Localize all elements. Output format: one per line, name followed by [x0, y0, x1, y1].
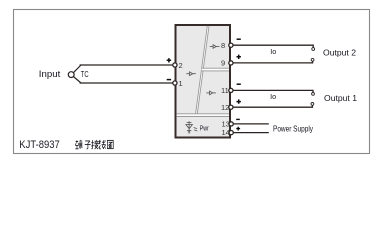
svg-text:TC: TC [81, 70, 89, 79]
svg-text:Io: Io [270, 94, 276, 101]
端 [75, 140, 82, 149]
svg-text:Input: Input [39, 69, 61, 79]
polarity + terminal 12 [237, 99, 241, 103]
title 端子接线图 (drawn glyphs) [75, 140, 113, 149]
terminal 11 [221, 86, 233, 95]
wire input plus [80, 64, 174, 66]
thermocouple TC [68, 65, 88, 83]
wire output 1 plus [233, 105, 312, 107]
terminal 14 [222, 128, 234, 137]
polarity - terminal 11 [237, 83, 241, 85]
terminal 1 [173, 79, 183, 88]
polarity + input [167, 58, 171, 62]
signal arrow output 1 [206, 91, 216, 95]
svg-text:8: 8 [221, 41, 225, 50]
terminal 9 [221, 59, 233, 68]
open end circle [311, 103, 314, 106]
svg-text:11: 11 [221, 86, 229, 95]
svg-text:9: 9 [221, 59, 225, 68]
wire input minus [80, 82, 174, 84]
terminal 13 [222, 120, 234, 129]
svg-text:14: 14 [222, 128, 230, 137]
open end circle [312, 48, 315, 51]
接 [91, 140, 98, 149]
图 [107, 140, 113, 148]
terminal 12 [221, 103, 233, 112]
signal arrow output 2 [210, 45, 220, 49]
isolation barrier (double diagonal) [196, 26, 209, 114]
svg-text:1: 1 [179, 79, 183, 88]
power symbol [186, 121, 197, 133]
wire power plus [233, 132, 268, 134]
svg-text:13: 13 [222, 120, 230, 129]
polarity - terminal 13 [236, 118, 240, 120]
线 [99, 140, 106, 149]
svg-text:Pwr: Pwr [200, 125, 209, 132]
子 [85, 141, 91, 149]
svg-text:Output 1: Output 1 [324, 93, 357, 103]
terminal 8 [221, 41, 233, 50]
signal arrow input channel [186, 72, 196, 76]
wire output 2 minus [233, 45, 313, 48]
border frame (decorative) [14, 10, 370, 154]
section divider output2 / output1 [201, 68, 229, 71]
terminal 2 [173, 61, 183, 70]
wire output 1 minus [233, 90, 313, 92]
polarity - input [167, 79, 171, 81]
svg-text:KJT-8937: KJT-8937 [19, 139, 60, 151]
svg-text:12: 12 [221, 103, 229, 112]
svg-text:Power Supply: Power Supply [273, 124, 313, 133]
svg-text:Io: Io [270, 49, 276, 56]
open end circle [312, 93, 315, 96]
polarity - terminal 8 [237, 38, 241, 40]
polarity + terminal 14 [236, 127, 240, 131]
section divider power section [177, 114, 229, 117]
module KJT-8937 block [176, 25, 231, 138]
polarity + terminal 9 [237, 55, 241, 59]
svg-text:2: 2 [179, 61, 183, 70]
wire power minus [233, 123, 268, 125]
svg-text:Output 2: Output 2 [323, 47, 356, 57]
wire output 2 plus [233, 61, 313, 63]
open end circle [311, 58, 314, 61]
